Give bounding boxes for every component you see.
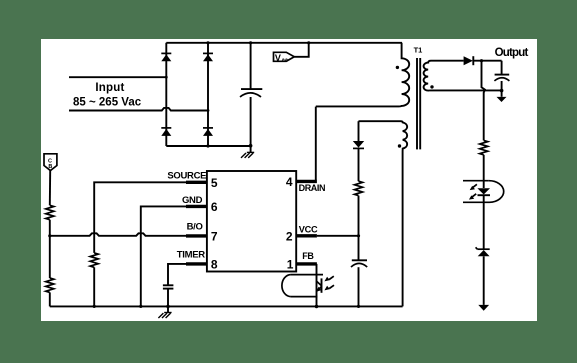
svg-text:4: 4 — [286, 175, 293, 189]
pin 4 stub — [296, 180, 317, 183]
diode D5 aux rectifier — [353, 121, 364, 181]
wire LED to zener — [483, 195, 485, 249]
svg-text:V: V — [275, 53, 281, 63]
diode D1 bridge top-left — [161, 53, 171, 61]
wire VCC pin to node — [317, 235, 359, 237]
pin 1 stub — [296, 262, 317, 265]
phase dot secondary — [430, 85, 433, 88]
node dot rail at GND wire — [139, 305, 142, 308]
wire R5 to LED — [483, 155, 485, 188]
optocoupler U2 LED — [477, 188, 490, 195]
wire SOURCE pin to divider — [94, 182, 186, 253]
svg-text:Input: Input — [95, 82, 124, 94]
wire TIMER pin to cap — [168, 264, 186, 285]
node dot input line 2 — [207, 109, 210, 112]
svg-text:1: 1 — [287, 258, 294, 272]
capacitor C4 output — [494, 61, 509, 91]
ground arrow secondary — [478, 305, 489, 311]
pin 6 stub — [186, 205, 207, 208]
wire R2 to bottom rail — [49, 292, 51, 306]
node dot B/O divider — [48, 234, 51, 237]
node dot rail at timer cap — [166, 305, 170, 309]
svg-text:B: B — [48, 164, 52, 170]
IC U1 box — [207, 171, 296, 272]
wire DRAIN pin to primary — [315, 107, 317, 180]
node dot top rail at Vcc flag — [307, 41, 310, 44]
wire input line 1 — [69, 76, 166, 78]
diode D2 bridge top-right — [203, 53, 213, 61]
optocoupler U2 light arrows (emit) — [469, 184, 477, 199]
resistor R5 — [480, 140, 488, 154]
svg-text:7: 7 — [211, 230, 218, 244]
wire top rail — [166, 42, 402, 44]
svg-text:6: 6 — [211, 200, 218, 214]
wire B/O line with hops — [50, 233, 186, 236]
node dot output diode tap — [480, 59, 483, 62]
zener D7 — [476, 247, 490, 305]
wire FB pin down — [316, 264, 318, 307]
svg-text:2: 2 — [286, 230, 293, 244]
ground G2 — [158, 306, 171, 318]
wire GND pin down — [141, 206, 186, 306]
wire input line 2 (hop over left bridge branch) — [69, 108, 208, 111]
capacitor C2 timer — [163, 285, 174, 306]
svg-text:B/O: B/O — [187, 222, 203, 233]
pin 7 stub — [186, 234, 207, 237]
svg-text:VCC: VCC — [299, 225, 318, 235]
wire right bridge branch — [207, 43, 209, 146]
node dot top rail at bulk cap — [249, 41, 252, 44]
node dot bridge bottom at ground — [249, 144, 253, 148]
resistor R4 — [355, 181, 363, 195]
wire R1 to B/O node — [49, 220, 51, 278]
diode D3 bridge bottom-left — [161, 128, 171, 136]
svg-text:85 ~ 265 Vac: 85 ~ 265 Vac — [73, 97, 142, 109]
svg-text:aa: aa — [282, 58, 289, 64]
svg-text:8: 8 — [211, 258, 218, 272]
pin 2 stub — [296, 234, 317, 237]
resistor R2 — [46, 278, 54, 292]
resistor R1 — [46, 205, 54, 219]
capacitor C3 vcc — [351, 260, 367, 306]
diode D4 bridge bottom-right — [203, 128, 213, 136]
node dot rail at vcc cap — [357, 305, 360, 308]
diode D6 output rectifier — [464, 56, 502, 65]
node dot VCC line — [357, 234, 360, 237]
svg-text:SOURCE: SOURCE — [167, 170, 206, 181]
svg-text:5: 5 — [211, 176, 218, 190]
optocoupler U2 transistor envelope — [282, 275, 323, 297]
transformer T1 primary winding — [316, 43, 409, 107]
optocoupler U2 LED envelope — [463, 181, 504, 203]
phase dot primary — [396, 66, 399, 69]
node dot output cap bottom — [500, 89, 504, 93]
svg-text:T1: T1 — [414, 45, 423, 54]
pin 5 stub — [186, 181, 207, 184]
wire bottom ground rail — [50, 305, 403, 307]
optocoupler U2 phototransistor — [316, 278, 321, 292]
svg-text:Output: Output — [495, 47, 529, 59]
ground arrow output — [497, 91, 507, 102]
resistor R3 — [90, 253, 98, 267]
wire bridge bottom rail — [166, 145, 250, 147]
transformer T1 core — [416, 58, 418, 149]
phase dot aux — [398, 144, 401, 147]
svg-text:DRAIN: DRAIN — [299, 183, 326, 193]
wire R3 to bottom rail — [93, 267, 95, 306]
optocoupler U2 light arrows (receive) — [324, 276, 334, 290]
net flag brown-out (left) — [44, 154, 57, 171]
capacitor C1 bulk — [240, 43, 262, 146]
svg-text:GND: GND — [182, 195, 203, 206]
svg-text:FB: FB — [302, 251, 314, 261]
wire left bridge branch — [165, 43, 167, 146]
node dot bridge bottom at right branch — [206, 144, 209, 147]
transformer T1 aux winding — [359, 121, 408, 306]
node dot top rail at right branch — [206, 41, 209, 44]
wire feedback tap with jog — [482, 61, 485, 141]
wire R4 to VCC node and cap — [358, 196, 360, 261]
ground G1 — [241, 146, 254, 158]
wire flag to R1 — [49, 171, 51, 206]
schematic white sheet — [41, 39, 537, 321]
net flag Vcc — [274, 52, 295, 63]
pin 8 stub — [186, 262, 207, 265]
node dot rail at FB wire — [315, 305, 319, 309]
node dot input line 1 — [165, 76, 168, 79]
node dot rail at R3 — [93, 305, 96, 308]
wire Vcc flag to top rail — [294, 43, 308, 57]
transformer T1 secondary winding — [424, 61, 502, 91]
svg-text:TIMER: TIMER — [177, 250, 205, 261]
